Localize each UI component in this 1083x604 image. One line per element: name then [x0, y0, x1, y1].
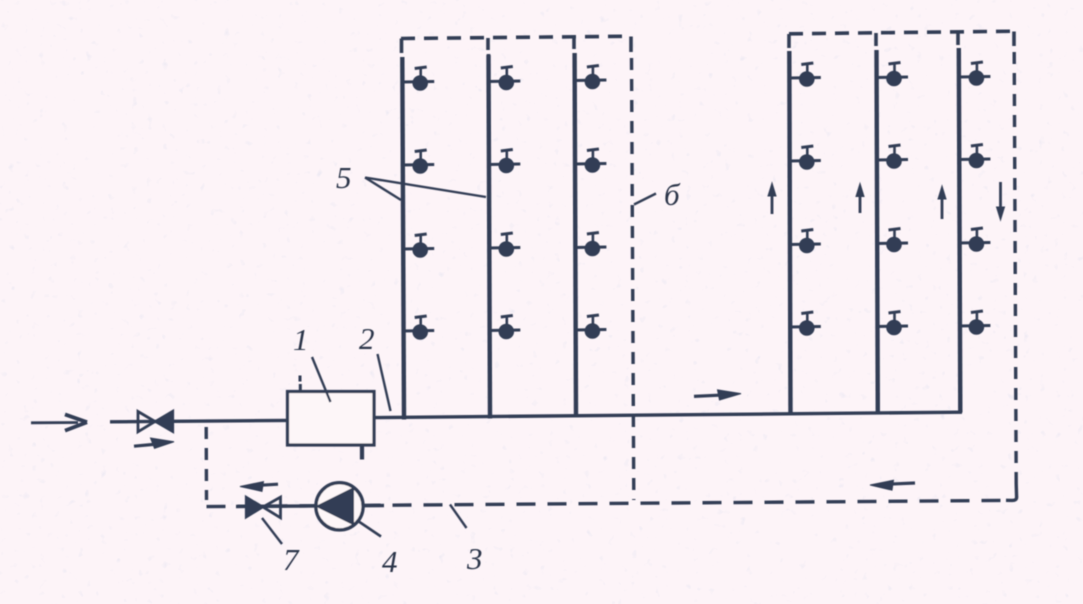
svg-text:б: б: [664, 177, 681, 212]
svg-text:2: 2: [359, 321, 375, 356]
svg-text:4: 4: [382, 544, 398, 579]
svg-text:1: 1: [293, 322, 309, 357]
svg-text:5: 5: [336, 160, 352, 195]
svg-text:7: 7: [283, 542, 300, 577]
svg-text:3: 3: [466, 541, 483, 576]
